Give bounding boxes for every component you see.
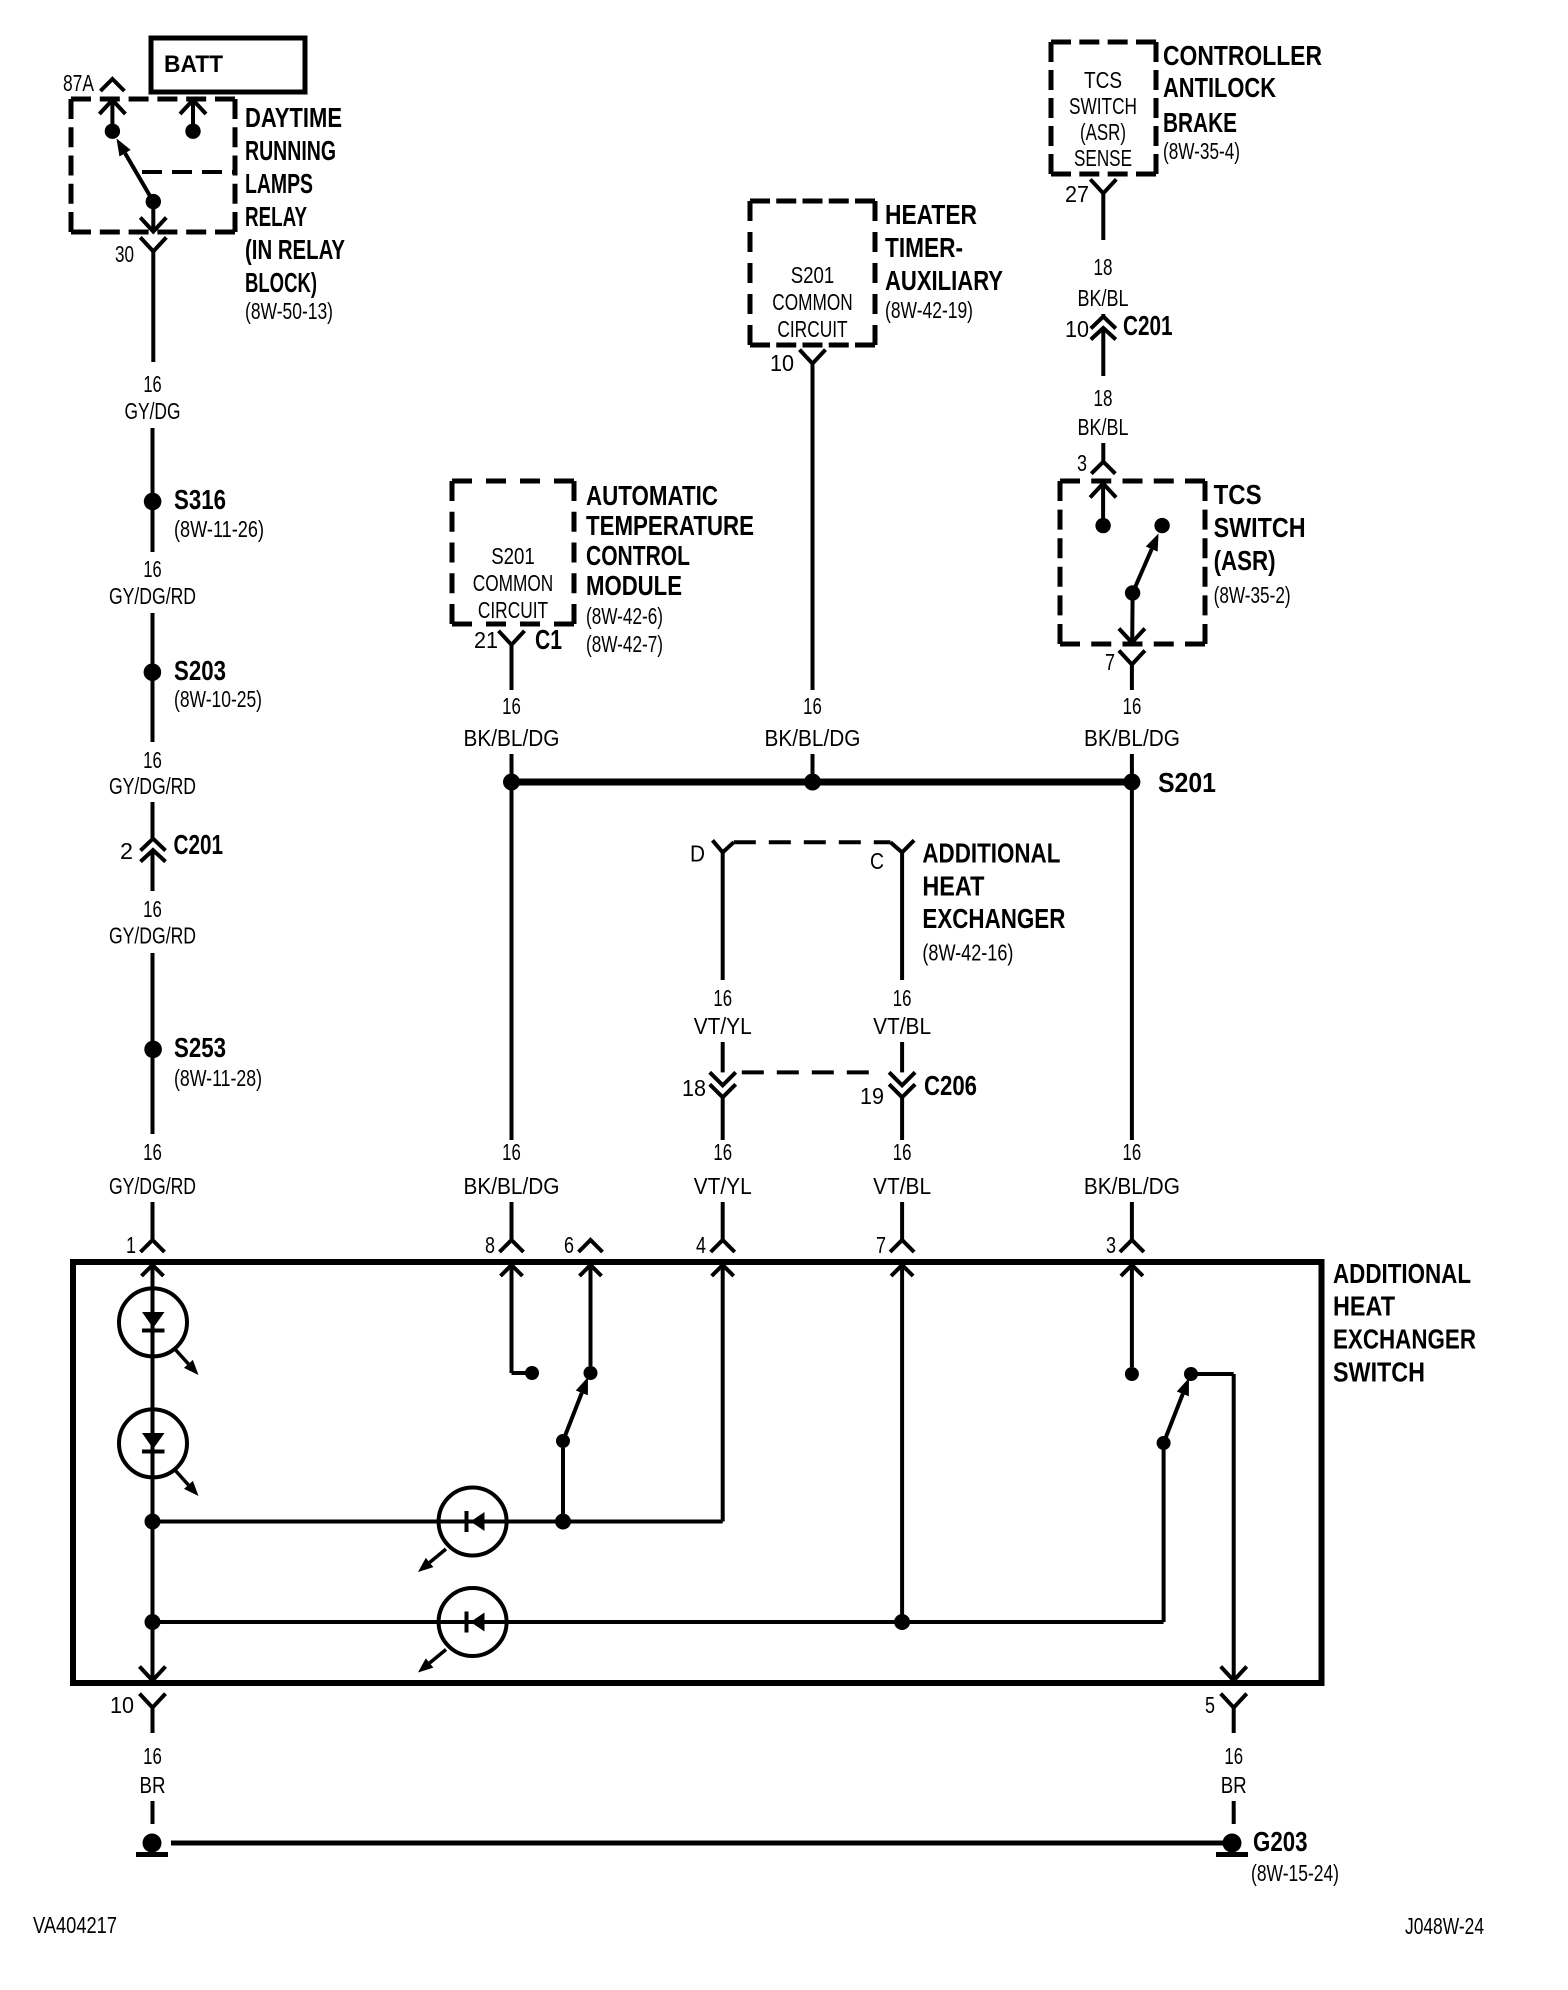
wire C down [900,852,904,980]
wire gauge label 16 VT/YL b [694,1139,752,1199]
TCS switch dashed box [1060,481,1205,644]
wire VT/YL below C206 [721,1097,725,1140]
heater timer name label [885,199,1003,323]
svg-text:BK/BL/DG: BK/BL/DG [464,1173,560,1199]
svg-text:2: 2 [120,838,133,864]
svg-text:BATT: BATT [164,51,223,78]
LED indicator lamp 1 circle [119,1288,187,1356]
TCS fixed contact dot left [1095,518,1110,533]
wire gauge label 16 VT/BL b [873,1139,931,1199]
ATC module U1 dashed box [452,481,574,624]
pin 27 label [1065,181,1089,207]
pin 3 connector half TCS [1091,462,1115,474]
svg-text:16: 16 [143,371,161,397]
svg-text:18: 18 [1094,385,1113,411]
connector C201 name [174,829,224,860]
svg-text:BLOCK): BLOCK) [245,267,317,298]
svg-text:4: 4 [696,1232,706,1258]
battery feed box BATT [151,38,305,92]
junction dot wire2 pin7 [894,1614,910,1630]
TCS pin 7 exit arrow [1119,629,1145,643]
wire segment label to S201 bus right [1130,754,1134,782]
svg-text:CIRCUIT: CIRCUIT [478,597,548,623]
splice S203 label [174,655,262,712]
wire pin 8 down [512,1265,527,1373]
internal wire 1 horizontal [153,1520,723,1524]
wire pin 7 down box [900,1265,904,1622]
pin 8 connector half [500,1240,524,1252]
switch B pivot dot [1157,1436,1171,1450]
svg-text:SWITCH: SWITCH [1214,512,1306,543]
pin 30 connector below relay [140,237,166,251]
connector C201 pin 2 label [120,838,133,864]
TCS blade pivot dot [1125,585,1140,600]
svg-text:(8W-35-2): (8W-35-2) [1214,582,1291,608]
svg-text:HEAT: HEAT [922,870,984,901]
svg-text:BR: BR [140,1772,166,1798]
pin 7 label TCS [1105,649,1115,675]
svg-text:16: 16 [143,747,162,773]
svg-text:VA404217: VA404217 [33,1912,117,1938]
wire segment pin21 to label [510,645,514,690]
wire segment label to S201 bus [510,754,514,782]
LED 2 arrow [174,1469,199,1496]
svg-text:16: 16 [502,693,521,719]
connector C201 pin 10 inline symbol [1091,317,1116,340]
pin 7 connector below TCS box [1119,651,1145,665]
connector C206 name [924,1070,977,1101]
relay pin 87A terminal arrow [99,100,125,124]
svg-text:S201: S201 [1158,767,1216,798]
svg-text:CIRCUIT: CIRCUIT [777,316,847,342]
sheet code J048W-24 [1405,1913,1484,1939]
svg-text:CONTROLLER: CONTROLLER [1163,40,1322,71]
wire pin27 down [1101,194,1105,240]
svg-text:VT/BL: VT/BL [873,1173,931,1199]
pin 7 terminal arrow [891,1265,913,1276]
junction dot wire1 left [145,1514,161,1530]
wire label to pin 7 box [900,1202,904,1240]
wire segment S253 to label [151,1058,155,1134]
svg-text:C206: C206 [924,1070,977,1101]
switch box name label [1333,1258,1476,1388]
svg-text:BR: BR [1221,1772,1247,1798]
pin 21 connector below ATC box [499,631,525,645]
relay block description label [245,102,345,324]
svg-text:16: 16 [803,693,822,719]
svg-text:TCS: TCS [1214,479,1262,510]
wire pin10 down [151,1708,155,1733]
svg-text:10: 10 [770,350,794,376]
pin 27 connector below sense box [1090,179,1116,193]
switch B blade with arrowhead [1164,1378,1189,1443]
switch A pivot wire down [561,1441,565,1522]
svg-text:COMMON: COMMON [772,289,852,315]
heater timer dashed box [750,201,875,345]
relay R1 dashed outline DAYTIME RUNNING LAMPS RELAY [71,99,235,232]
diode D2 circle [439,1588,507,1656]
wire pin 6 down [589,1265,593,1366]
wire S201 bus down right column [1130,782,1134,1140]
svg-text:3: 3 [1106,1232,1116,1258]
controller antilock brake label [1163,40,1322,164]
pin 6 terminal arrow [580,1265,602,1276]
pin 1 terminal arrow [142,1265,164,1276]
svg-text:C1: C1 [535,624,562,655]
TCS pivot wire down [1130,593,1134,642]
svg-text:(8W-10-25): (8W-10-25) [174,686,262,712]
svg-text:TEMPERATURE: TEMPERATURE [586,510,754,541]
svg-text:TCS: TCS [1084,67,1122,93]
pin 4 terminal arrow [712,1265,734,1276]
svg-text:C201: C201 [1123,310,1173,341]
svg-text:COMMON: COMMON [473,570,553,596]
diode D1 arrow [418,1549,446,1572]
splice S201 name label [1158,767,1216,798]
wire VT/BL to C206 [900,1042,904,1072]
wire BR to ground right [1232,1801,1236,1824]
svg-text:RELAY: RELAY [245,201,307,232]
svg-text:(8W-11-28): (8W-11-28) [174,1065,262,1091]
svg-text:16: 16 [1123,1139,1142,1165]
svg-text:30: 30 [115,241,134,267]
wire gauge label 16 GY/DG/RD d [109,1139,196,1199]
svg-text:BK/BL/DG: BK/BL/DG [1084,725,1180,751]
svg-text:10: 10 [1065,316,1089,342]
wire segment label to S253 [151,953,155,1041]
svg-text:BK/BL: BK/BL [1078,414,1129,440]
pin 18 label [682,1075,706,1101]
svg-text:J048W-24: J048W-24 [1405,1913,1484,1939]
wire gauge label 16 GY/DG [125,371,181,424]
connector C206 pin 19 inline symbol [889,1072,915,1097]
wire segment S316 to label [151,509,155,552]
svg-text:ADDITIONAL: ADDITIONAL [1333,1258,1471,1289]
TCS switch name label [1214,479,1306,608]
wire gauge label 16 BK/BL/DG c [1084,693,1180,751]
wire VT/BL below C206 [900,1097,904,1140]
svg-text:(8W-11-26): (8W-11-26) [174,516,264,542]
wire label to pin 3 box [1130,1202,1134,1240]
switch B fixed contact dot out [1184,1367,1198,1381]
relay contact dot BATT side [185,124,200,139]
pin 7 label box [876,1232,886,1258]
svg-text:AUTOMATIC: AUTOMATIC [586,480,718,511]
svg-text:16: 16 [893,1139,912,1165]
wire BR to ground left [151,1801,155,1824]
wire gauge label 18 BK/BL a [1078,254,1129,311]
relay pin 30 exit arrow [140,218,166,232]
internal wire 2 horizontal [153,1620,1164,1624]
svg-text:18: 18 [682,1075,706,1101]
svg-text:16: 16 [713,1139,732,1165]
svg-text:S253: S253 [174,1032,226,1063]
wire pin1 down through LED1 [151,1265,155,1289]
pin 19 label [860,1083,884,1109]
svg-text:8: 8 [485,1232,495,1258]
connector C201 pin 10 label [1065,316,1089,342]
svg-text:C: C [870,848,884,874]
ground bus wire [171,1841,1224,1846]
wire pin 3 down box [1130,1265,1134,1367]
svg-text:ADDITIONAL: ADDITIONAL [922,837,1060,868]
svg-text:(ASR): (ASR) [1214,545,1276,576]
svg-text:S201: S201 [491,543,535,569]
svg-text:(8W-42-7): (8W-42-7) [586,631,663,657]
wire segment label to pin 1 [151,1202,155,1240]
svg-text:GY/DG/RD: GY/DG/RD [109,773,196,799]
pin 4 label [696,1232,706,1258]
TCS fixed contact dot right [1154,518,1169,533]
wire label to pin 8 [510,1202,514,1240]
ground G203 left symbol [136,1834,168,1855]
svg-text:10: 10 [110,1692,134,1718]
svg-text:(ASR): (ASR) [1080,119,1126,145]
svg-text:BK/BL/DG: BK/BL/DG [464,725,560,751]
relay common contact dot [146,194,161,209]
wire label to pin 4 [721,1202,725,1240]
wire LED1 internal [151,1289,155,1356]
TCS switch sense dashed box [1051,42,1156,174]
splice bus S201 wire [512,779,1132,786]
svg-text:21: 21 [474,627,498,653]
wire LED2 to bottom [151,1410,155,1681]
relay internal divider [142,170,235,174]
pin 5 label box [1205,1692,1215,1718]
splice S316 label [174,484,264,542]
svg-text:16: 16 [143,1743,162,1769]
switch A fixed contact dot 6 [584,1366,598,1380]
pin 3 connector half box [1120,1240,1144,1252]
pin 10 label box [110,1692,134,1718]
svg-text:VT/YL: VT/YL [694,1013,752,1039]
wire heater timer down [811,364,815,690]
wire segment C201 to label [151,850,155,891]
svg-text:ANTILOCK: ANTILOCK [1163,72,1276,103]
pin 30 label [115,241,134,267]
additional heat exchanger name label [922,837,1065,965]
svg-text:16: 16 [502,1139,521,1165]
svg-text:19: 19 [860,1083,884,1109]
connector C206 dashed jumper [742,1070,881,1074]
splice S253 label [174,1032,262,1091]
wire segment label to S201 bus mid [811,754,815,782]
svg-text:SWITCH: SWITCH [1069,93,1137,119]
wire gauge label 16 GY/DG/RD b [109,747,196,799]
svg-text:C201: C201 [174,829,224,860]
pin D label [690,841,705,867]
connector C206 pin 18 inline symbol [710,1072,736,1097]
wire segment pin30 to label [151,251,155,362]
pin 1 connector half [141,1240,165,1252]
LED indicator lamp 2 circle [119,1409,187,1477]
pin 87A label [63,70,94,96]
svg-text:27: 27 [1065,181,1089,207]
ATC module name label [586,480,754,657]
ground G203 right symbol [1216,1834,1248,1855]
switch A blade with arrowhead [563,1377,588,1441]
bus junction dot left [503,774,520,791]
svg-text:LAMPS: LAMPS [245,168,313,199]
wire gauge label 16 BK/BL/DG a [464,693,560,751]
TCS pin 3 terminal arrow [1090,484,1116,519]
svg-text:MODULE: MODULE [586,570,682,601]
svg-text:16: 16 [143,896,162,922]
svg-text:(IN RELAY: (IN RELAY [245,234,345,265]
svg-text:SWITCH: SWITCH [1333,1357,1425,1388]
svg-text:(8W-42-16): (8W-42-16) [922,940,1013,966]
svg-text:GY/DG: GY/DG [125,398,181,424]
connector C1 name [535,624,562,655]
splice S253 dot [144,1041,162,1059]
svg-text:S316: S316 [174,484,226,515]
diode D2 arrow [418,1650,446,1673]
switch B pivot wire to wire2 [1162,1443,1166,1622]
wire pin7 down [1130,662,1134,691]
pin 3 label box [1106,1232,1116,1258]
wire gauge label 16 BK/BL/DG box col [464,1139,560,1199]
pin 6 label [564,1232,574,1258]
svg-text:16: 16 [1123,693,1142,719]
svg-text:HEATER: HEATER [885,199,977,230]
svg-text:7: 7 [1105,649,1115,675]
relay coil-side pin terminal arrow [180,100,206,124]
wire segment label to S203 [151,613,155,665]
svg-text:BK/BL/DG: BK/BL/DG [1084,1173,1180,1199]
diode D1 circle [439,1488,507,1556]
svg-text:5: 5 [1205,1692,1215,1718]
svg-text:16: 16 [143,1139,162,1165]
bus junction dot right S201 [1123,774,1140,791]
wire gauge label 16 GY/DG/RD a [109,556,196,609]
AHE dashed jumper D to C [734,840,891,844]
svg-text:7: 7 [876,1232,886,1258]
svg-text:VT/YL: VT/YL [694,1173,752,1199]
connector C201 pin 2 inline symbol [141,839,166,862]
wire segment S203 to label [151,680,155,742]
pin 5 exit arrow [1221,1667,1247,1681]
wire gauge label 16 VT/BL a [873,985,931,1039]
svg-text:CONTROL: CONTROL [586,540,690,571]
wire gauge label 18 BK/BL b [1078,385,1129,440]
svg-text:EXCHANGER: EXCHANGER [1333,1324,1476,1355]
LED 1 arrow [174,1348,199,1375]
svg-text:87A: 87A [63,70,94,96]
svg-text:GY/DG/RD: GY/DG/RD [109,923,196,949]
svg-text:DAYTIME: DAYTIME [245,102,342,133]
svg-text:BK/BL/DG: BK/BL/DG [765,725,861,751]
svg-text:(8W-42-6): (8W-42-6) [586,603,663,629]
svg-text:1: 1 [126,1232,136,1258]
svg-text:BRAKE: BRAKE [1163,107,1237,138]
svg-text:SENSE: SENSE [1074,145,1132,171]
wire between LEDs [151,1356,155,1410]
wire segment label to S316 [151,428,155,494]
svg-text:RUNNING: RUNNING [245,135,336,166]
pin 10 connector below heater box [800,350,826,364]
svg-text:GY/DG/RD: GY/DG/RD [109,1173,196,1199]
pin 10 exit arrow [140,1667,166,1681]
svg-text:(8W-50-13): (8W-50-13) [245,298,333,324]
svg-text:16: 16 [1224,1743,1243,1769]
heater timer box text [772,262,852,342]
relay pin 30 wire [151,202,155,231]
svg-text:S201: S201 [791,262,835,288]
junction dot wire1 switch A [555,1514,571,1530]
pin 1 label [126,1232,136,1258]
svg-text:AUXILIARY: AUXILIARY [885,265,1003,296]
pin 10 connector below box [140,1694,166,1708]
connector C half [890,840,914,852]
svg-text:G203: G203 [1253,1826,1308,1857]
svg-text:EXCHANGER: EXCHANGER [922,903,1065,934]
junction dot wire2 left [145,1614,161,1630]
pin 3 terminal arrow [1121,1265,1143,1276]
svg-text:VT/BL: VT/BL [873,1013,931,1039]
svg-text:(8W-42-19): (8W-42-19) [885,297,973,323]
sheet number VA404217 [33,1912,117,1938]
svg-text:HEAT: HEAT [1333,1291,1395,1322]
pin 87A connector half above relay [100,79,124,91]
svg-text:GY/DG/RD: GY/DG/RD [109,583,196,609]
splice S203 dot [144,663,162,681]
pin 8 label [485,1232,495,1258]
wire segment label to C201 [151,802,155,838]
pin 8 terminal arrow [501,1265,523,1276]
svg-text:TIMER-: TIMER- [885,232,963,263]
svg-text:18: 18 [1094,254,1113,280]
TCS switch blade with arrowhead [1133,534,1159,593]
svg-text:16: 16 [713,985,732,1011]
TCS sense box text [1069,67,1137,171]
ground G203 label [1251,1826,1339,1886]
wire gauge label 16 BK/BL/DG box col right [1084,1139,1180,1199]
svg-text:16: 16 [893,985,912,1011]
wire pin5 down [1232,1708,1236,1733]
bus junction dot mid [804,774,821,791]
switch B fixed contact dot 3 [1125,1367,1139,1381]
pin 3 label TCS [1077,450,1087,476]
pin 5 connector below box [1221,1694,1247,1708]
pin 4 connector half [711,1240,735,1252]
ATC module box text [473,543,553,623]
wire D down [721,852,725,980]
connector C201 name right [1123,310,1173,341]
additional heat exchanger switch box [73,1262,1322,1683]
pin 10 label heater [770,350,794,376]
relay contact dot 87A [105,124,120,139]
pin 21 label [474,627,498,653]
relay switch blade with arrowhead [117,139,154,202]
svg-text:S203: S203 [174,655,226,686]
wire VT/YL to C206 [721,1042,725,1072]
wire S201 bus down ATC column [510,782,514,1140]
svg-text:6: 6 [564,1232,574,1258]
wire label to pin 3 TCS [1101,443,1105,461]
wire C201 to label 18 [1101,328,1105,376]
svg-text:BK/BL: BK/BL [1078,285,1129,311]
wire gauge label 16 BK/BL/DG b [765,693,861,751]
wire segment to C201 upper [1101,314,1105,317]
switch A pivot dot [556,1434,570,1448]
switch A fixed contact dot 8 [525,1366,539,1380]
svg-text:16: 16 [143,556,161,582]
svg-text:(8W-35-4): (8W-35-4) [1163,138,1240,164]
svg-text:D: D [690,841,705,867]
splice S316 dot [144,493,162,511]
wire gauge label 16 BR left [140,1743,166,1798]
wire gauge label 16 BR right [1221,1743,1247,1798]
